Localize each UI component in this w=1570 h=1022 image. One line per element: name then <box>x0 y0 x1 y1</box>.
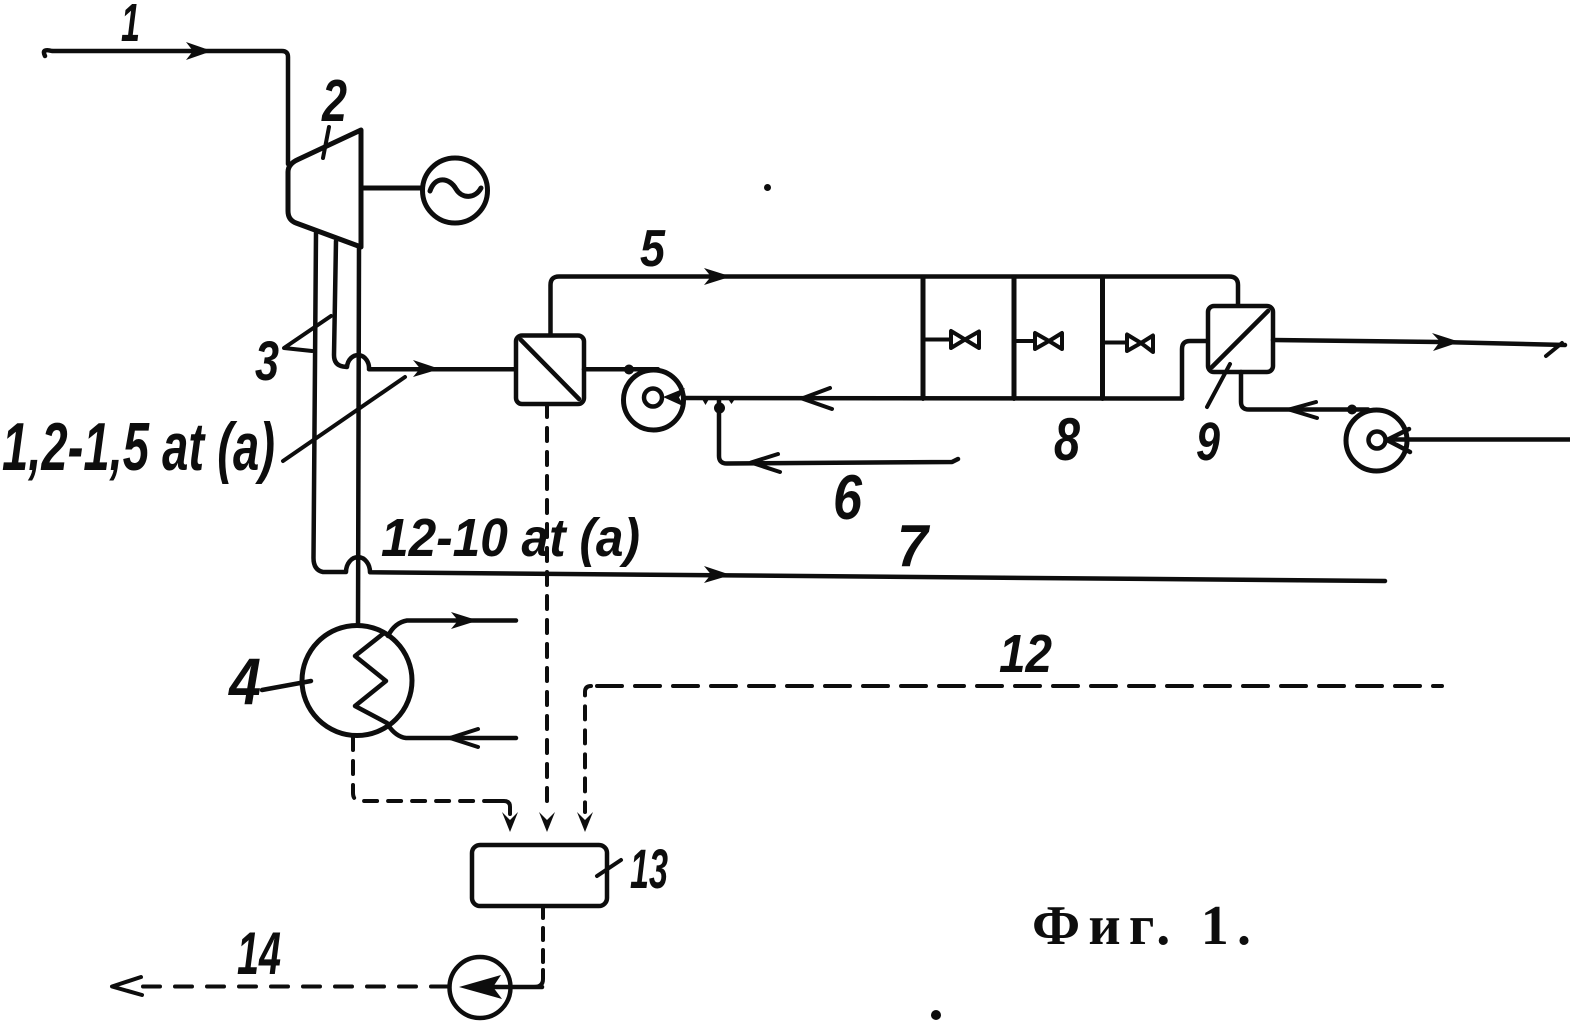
wire: extraction line to heater (1,2-1,5 at) <box>334 241 516 369</box>
tick marks at branch <box>702 399 709 405</box>
svg-text:4: 4 <box>227 644 261 718</box>
corner into tank 13 <box>497 801 510 814</box>
svg-text:8: 8 <box>1054 406 1080 473</box>
pump P1 inlet arrow <box>663 388 685 407</box>
pump P2 inlet arrow <box>1387 429 1410 452</box>
valve V3 stub <box>1104 341 1127 345</box>
label 3 leader <box>284 316 331 351</box>
arrow on line 14 <box>112 977 142 995</box>
pump P2 <box>1346 410 1407 471</box>
stray dot top <box>764 184 771 191</box>
svg-text:1,2-1,5 at (a): 1,2-1,5 at (a) <box>2 409 275 485</box>
arrow on extraction line <box>413 360 440 377</box>
svg-text:2: 2 <box>321 68 347 134</box>
arrow on line 6 <box>751 454 780 472</box>
dashed drain from heat exchanger box <box>545 404 549 812</box>
wire: box 9 drain to pump P2 <box>1241 372 1368 410</box>
svg-text:6: 6 <box>833 463 863 533</box>
pump P2 hub <box>1369 432 1386 449</box>
junction dot <box>624 365 634 375</box>
end tick <box>1546 343 1562 356</box>
wire: heating water out of 4 <box>388 621 516 637</box>
svg-text:3: 3 <box>255 329 279 392</box>
junction dot to line 6 <box>714 403 725 414</box>
dashed line 14 <box>130 985 448 989</box>
svg-text:12-10 at (a): 12-10 at (a) <box>381 508 640 568</box>
svg-text:7: 7 <box>897 513 931 579</box>
svg-text:14: 14 <box>237 920 281 987</box>
arrow out of 4 <box>451 612 478 629</box>
junction dot at pump P2 <box>1347 405 1357 415</box>
dashed drain from heat exchanger 4 <box>353 737 497 801</box>
arrow on feed water line <box>802 388 832 409</box>
svg-text:12: 12 <box>999 624 1052 684</box>
wire: turbine exhaust down <box>358 247 359 627</box>
heater bank 8 partition walls <box>921 277 926 399</box>
valve V1 stub <box>925 338 951 342</box>
arrow on outlet <box>1432 333 1460 351</box>
wire: live steam line 1 <box>44 50 288 164</box>
turbine 2 <box>288 130 361 247</box>
svg-text:5: 5 <box>640 220 666 278</box>
arrow on line 1 <box>186 42 212 60</box>
label 2 leader <box>323 127 329 158</box>
wire: condensate out of heat exchanger <box>584 367 658 372</box>
label 9 leader <box>1207 364 1230 407</box>
svg-text:Фиг. 1.: Фиг. 1. <box>1032 895 1251 957</box>
heater coil zigzag <box>355 633 387 723</box>
pump P3 arrow <box>470 985 542 990</box>
pump P1 (condensate pump) <box>624 370 684 430</box>
heat exchanger box (ejector cooler) <box>516 336 584 405</box>
svg-text:9: 9 <box>1196 412 1220 472</box>
label 13 leader <box>597 860 621 876</box>
tank 13 <box>472 845 607 906</box>
arrow into 4 <box>450 729 478 747</box>
wire: extraction line 3 down to line 7 <box>314 233 1386 581</box>
svg-text:1: 1 <box>121 0 140 53</box>
valve V2 stub <box>1016 339 1035 343</box>
arrow into tank 13 (middle) <box>539 812 555 832</box>
generator sine symbol <box>430 180 481 197</box>
arrow on line 5 <box>704 268 731 285</box>
wire: heating water return into 4 <box>388 725 516 738</box>
svg-text:13: 13 <box>630 837 668 900</box>
wire: generator shaft <box>361 186 423 191</box>
box 9 diagonal <box>1212 311 1268 367</box>
wire: feed water rise to box 9 <box>1182 341 1208 399</box>
label 1,2-1,5 leader <box>283 377 405 461</box>
dashed line 12 <box>585 686 591 812</box>
wire: hot water out of box 9 <box>1273 340 1565 345</box>
heat exchanger 4 <box>302 626 412 736</box>
arrow on drain line <box>1289 402 1317 418</box>
wire: pump P2 suction from right <box>1390 437 1570 442</box>
valve V3 <box>1127 335 1153 353</box>
pump P1 hub <box>644 389 662 407</box>
valve V1 <box>951 331 979 348</box>
stray dot bottom <box>931 1010 941 1020</box>
wire: steam line 5 <box>551 277 1239 336</box>
valve V2 <box>1035 333 1062 349</box>
pump P3 <box>450 957 511 1018</box>
arrow into tank 13 (right) <box>577 812 593 832</box>
corner into pump P3 <box>511 970 543 987</box>
generator G <box>423 158 488 223</box>
label 4 leader <box>262 681 311 690</box>
arrow into tank 13 (left) <box>502 812 518 832</box>
dashed line tank 13 to pump P3 <box>541 906 545 968</box>
wire: feed water line (heater train bottom) <box>684 396 1182 401</box>
heat exchanger diagonal <box>521 340 579 399</box>
arrow on line 7 <box>704 566 731 583</box>
heat exchanger box 9 <box>1208 306 1273 372</box>
wire: make-up line 6 <box>719 400 958 464</box>
